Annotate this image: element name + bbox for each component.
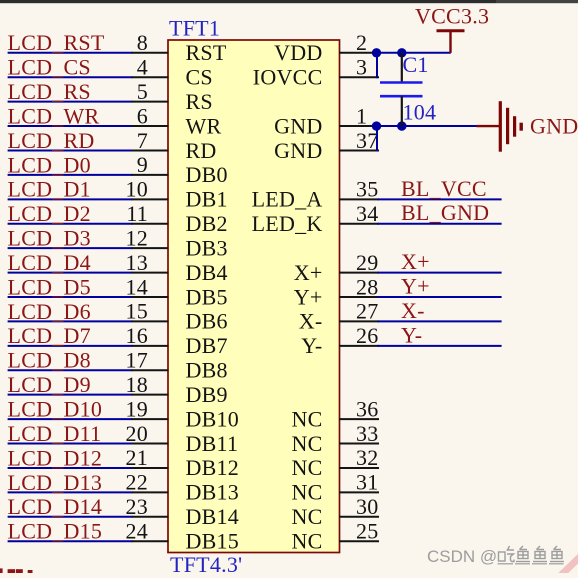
wire LCD_D9 bbox=[8, 394, 133, 396]
svg-text:VDD: VDD bbox=[274, 40, 322, 65]
svg-text:3: 3 bbox=[356, 55, 367, 80]
wire LCD_D11 bbox=[8, 443, 133, 445]
svg-text:24: 24 bbox=[126, 519, 149, 544]
wire LCD_D5 bbox=[8, 296, 133, 298]
pin 34 LED_K bbox=[252, 201, 379, 236]
svg-text:17: 17 bbox=[126, 348, 149, 373]
pin 14 DB5 bbox=[126, 274, 228, 309]
wire LCD_D1 bbox=[8, 198, 133, 200]
svg-text:8: 8 bbox=[137, 30, 148, 55]
svg-text:DB5: DB5 bbox=[186, 284, 228, 309]
pin 5 RS bbox=[132, 79, 213, 114]
wire LCD_RS bbox=[8, 101, 133, 103]
svg-text:LCD_D5: LCD_D5 bbox=[8, 274, 91, 299]
pin 29 X+ bbox=[294, 250, 379, 285]
pin 8 RST bbox=[132, 30, 227, 65]
svg-text:29: 29 bbox=[356, 250, 379, 275]
svg-text:6: 6 bbox=[137, 103, 148, 128]
pin 6 WR bbox=[132, 103, 222, 138]
wire LCD_D13 bbox=[8, 491, 133, 493]
svg-text:X-: X- bbox=[401, 298, 425, 323]
svg-text:NC: NC bbox=[291, 406, 322, 431]
pin 32 NC bbox=[291, 445, 379, 480]
svg-text:DB11: DB11 bbox=[186, 431, 239, 456]
svg-text:NC: NC bbox=[291, 504, 322, 529]
wire VDD pin2 to VCC3.3 bbox=[372, 52, 451, 54]
svg-text:22: 22 bbox=[126, 470, 149, 495]
svg-text:31: 31 bbox=[356, 470, 379, 495]
wire BL_GND bbox=[378, 223, 502, 225]
svg-text:LCD_D1: LCD_D1 bbox=[8, 177, 91, 202]
wire GND pin1 to GND symbol bbox=[372, 125, 478, 127]
pin 28 Y+ bbox=[294, 274, 379, 309]
svg-text:LCD_D12: LCD_D12 bbox=[8, 445, 103, 470]
pin 17 DB8 bbox=[126, 348, 228, 383]
svg-text:LCD_WR: LCD_WR bbox=[8, 104, 100, 129]
svg-text:LCD_D14: LCD_D14 bbox=[8, 494, 103, 519]
junction GND/C1 node bbox=[397, 121, 406, 130]
svg-text:DB10: DB10 bbox=[186, 406, 240, 431]
svg-text:RD: RD bbox=[186, 138, 217, 163]
svg-text:37: 37 bbox=[356, 128, 379, 153]
svg-text:DB15: DB15 bbox=[186, 529, 240, 554]
svg-text:X-: X- bbox=[299, 309, 323, 334]
pin 31 NC bbox=[291, 470, 379, 505]
wire LCD_RD bbox=[8, 149, 133, 151]
svg-text:NC: NC bbox=[291, 455, 322, 480]
svg-text:30: 30 bbox=[356, 494, 379, 519]
svg-text:WR: WR bbox=[186, 113, 222, 138]
svg-text:10: 10 bbox=[126, 177, 149, 202]
pin 13 DB4 bbox=[126, 250, 228, 285]
svg-text:26: 26 bbox=[356, 323, 379, 348]
svg-text:LCD_D11: LCD_D11 bbox=[8, 421, 102, 446]
component U1 body TFT1 bbox=[168, 40, 340, 553]
svg-text:LCD_D10: LCD_D10 bbox=[8, 397, 103, 422]
svg-text:34: 34 bbox=[356, 201, 379, 226]
svg-text:DB7: DB7 bbox=[186, 333, 228, 358]
svg-text:BL_GND: BL_GND bbox=[401, 200, 489, 225]
svg-text:25: 25 bbox=[356, 519, 379, 544]
pin 23 DB14 bbox=[126, 494, 240, 529]
power port VCC3.3 bar symbol bbox=[437, 31, 465, 53]
svg-text:LCD_RD: LCD_RD bbox=[8, 128, 95, 153]
wire LCD_D4 bbox=[8, 272, 133, 274]
capacitor C1 top lead bbox=[401, 53, 403, 83]
svg-text:DB13: DB13 bbox=[186, 480, 240, 505]
wire LCD_D3 bbox=[8, 247, 133, 249]
wire LCD_D8 bbox=[8, 369, 133, 371]
pin 36 NC bbox=[291, 396, 379, 431]
wire LCD_D0 bbox=[8, 174, 133, 176]
svg-text:LED_A: LED_A bbox=[252, 187, 323, 212]
pin 37 GND bbox=[274, 128, 379, 163]
pin 19 DB10 bbox=[126, 396, 240, 431]
svg-text:21: 21 bbox=[126, 445, 149, 470]
svg-text:LCD_RS: LCD_RS bbox=[8, 79, 91, 104]
svg-text:LCD_D13: LCD_D13 bbox=[8, 470, 103, 495]
svg-text:15: 15 bbox=[126, 299, 149, 324]
wire X+ bbox=[378, 272, 502, 274]
svg-text:LCD_D7: LCD_D7 bbox=[8, 323, 91, 348]
svg-text:BL_VCC: BL_VCC bbox=[401, 176, 487, 201]
svg-text:TFT4.3': TFT4.3' bbox=[170, 552, 242, 573]
svg-text:CS: CS bbox=[186, 65, 213, 90]
wire LCD_D6 bbox=[8, 320, 133, 322]
svg-text:27: 27 bbox=[356, 299, 379, 324]
svg-text:DB1: DB1 bbox=[186, 187, 228, 212]
wire X- bbox=[378, 320, 502, 322]
wire LCD_RST bbox=[8, 52, 133, 54]
svg-text:DB6: DB6 bbox=[186, 309, 228, 334]
pin 9 DB0 bbox=[132, 152, 228, 187]
svg-text:LCD_D2: LCD_D2 bbox=[8, 201, 91, 226]
svg-text:GND: GND bbox=[274, 113, 322, 138]
svg-text:33: 33 bbox=[356, 421, 379, 446]
junction pin1/pin37 node bbox=[372, 121, 381, 130]
pin 21 DB12 bbox=[126, 445, 240, 480]
svg-text:LCD_RST: LCD_RST bbox=[8, 30, 105, 55]
svg-text:4: 4 bbox=[137, 55, 148, 80]
svg-text:19: 19 bbox=[126, 396, 149, 421]
pin 33 NC bbox=[291, 421, 379, 456]
pin 16 DB7 bbox=[126, 323, 228, 358]
svg-text:DB12: DB12 bbox=[186, 455, 240, 480]
svg-text:Y+: Y+ bbox=[401, 274, 430, 299]
svg-text:LCD_D0: LCD_D0 bbox=[8, 152, 91, 177]
svg-text:GND: GND bbox=[530, 113, 578, 138]
svg-text:12: 12 bbox=[126, 226, 149, 251]
svg-text:14: 14 bbox=[126, 274, 149, 299]
svg-text:DB4: DB4 bbox=[186, 260, 228, 285]
wire LCD_D12 bbox=[8, 467, 133, 469]
svg-text:18: 18 bbox=[126, 372, 149, 397]
svg-text:DB0: DB0 bbox=[186, 162, 228, 187]
wire Y- bbox=[378, 345, 502, 347]
svg-text:NC: NC bbox=[291, 431, 322, 456]
svg-text:DB3: DB3 bbox=[186, 236, 228, 261]
svg-text:DB2: DB2 bbox=[186, 211, 228, 236]
wire LCD_D15 bbox=[8, 540, 133, 542]
pin 26 Y- bbox=[301, 323, 379, 358]
svg-text:28: 28 bbox=[356, 274, 379, 299]
svg-text:RST: RST bbox=[186, 40, 227, 65]
svg-text:13: 13 bbox=[126, 250, 149, 275]
svg-text:2: 2 bbox=[356, 30, 367, 55]
junction VDD/C1 node bbox=[397, 48, 406, 57]
svg-text:5: 5 bbox=[137, 79, 148, 104]
pin 35 LED_A bbox=[252, 177, 379, 212]
svg-text:35: 35 bbox=[356, 177, 379, 202]
wire LCD_D10 bbox=[8, 418, 133, 420]
wire IOVCC pin3 riser bbox=[376, 53, 378, 78]
svg-text:Y-: Y- bbox=[301, 333, 322, 358]
net label LCD (clipped at bottom edge) bbox=[0, 568, 33, 573]
svg-text:TFT1: TFT1 bbox=[169, 16, 220, 41]
svg-text:VCC3.3: VCC3.3 bbox=[415, 3, 489, 28]
wire BL_VCC bbox=[378, 198, 502, 200]
pin 25 NC bbox=[291, 519, 379, 554]
pin 3 IOVCC bbox=[253, 55, 379, 90]
svg-text:DB14: DB14 bbox=[186, 504, 240, 529]
svg-text:36: 36 bbox=[356, 396, 379, 421]
svg-text:DB9: DB9 bbox=[186, 382, 228, 407]
wire LCD_D7 bbox=[8, 345, 133, 347]
svg-text:LCD_D15: LCD_D15 bbox=[8, 519, 103, 544]
svg-text:Y+: Y+ bbox=[294, 284, 323, 309]
watermark (decorative) bbox=[427, 547, 497, 566]
pin 10 DB1 bbox=[126, 177, 228, 212]
svg-text:LCD_D9: LCD_D9 bbox=[8, 372, 91, 397]
pin 22 DB13 bbox=[126, 470, 240, 505]
svg-text:C1: C1 bbox=[403, 52, 429, 77]
pin 27 X- bbox=[299, 299, 379, 334]
pin 20 DB11 bbox=[126, 421, 239, 456]
pin 15 DB6 bbox=[126, 299, 228, 334]
svg-text:LCD_D3: LCD_D3 bbox=[8, 226, 91, 251]
svg-text:Y-: Y- bbox=[401, 322, 422, 347]
pin 30 NC bbox=[291, 494, 379, 529]
wire LCD_D14 bbox=[8, 516, 133, 518]
capacitor C1 plates bbox=[380, 83, 423, 97]
svg-text:NC: NC bbox=[291, 529, 322, 554]
junction pin2/pin3 node bbox=[372, 48, 381, 57]
svg-text:DB8: DB8 bbox=[186, 358, 228, 383]
wire GND pin37 riser bbox=[376, 126, 378, 151]
wire LCD_CS bbox=[8, 76, 133, 78]
svg-text:GND: GND bbox=[274, 138, 322, 163]
pin 12 DB3 bbox=[126, 226, 228, 261]
svg-text:NC: NC bbox=[291, 480, 322, 505]
svg-text:LCD_D6: LCD_D6 bbox=[8, 299, 91, 324]
pin 7 RD bbox=[132, 128, 217, 163]
svg-text:LCD_D8: LCD_D8 bbox=[8, 348, 91, 373]
svg-text:LCD_D4: LCD_D4 bbox=[8, 250, 91, 275]
svg-text:RS: RS bbox=[186, 89, 213, 114]
svg-text:32: 32 bbox=[356, 445, 379, 470]
svg-text:7: 7 bbox=[137, 128, 148, 153]
pin 2 VDD bbox=[274, 30, 379, 65]
ground symbol GND bbox=[477, 101, 522, 152]
wire LCD_WR bbox=[8, 125, 133, 127]
svg-text:X+: X+ bbox=[294, 260, 323, 285]
svg-text:20: 20 bbox=[126, 421, 149, 446]
svg-text:9: 9 bbox=[137, 152, 148, 177]
svg-text:LED_K: LED_K bbox=[252, 211, 323, 236]
wire LCD_D2 bbox=[8, 223, 133, 225]
pin 11 DB2 bbox=[126, 201, 228, 236]
svg-text:16: 16 bbox=[126, 323, 149, 348]
svg-text:IOVCC: IOVCC bbox=[253, 65, 323, 90]
pin 18 DB9 bbox=[126, 372, 228, 407]
svg-text:LCD_CS: LCD_CS bbox=[8, 55, 91, 80]
svg-text:1: 1 bbox=[356, 103, 367, 128]
svg-text:X+: X+ bbox=[401, 249, 430, 274]
capacitor C1 bottom lead bbox=[401, 96, 403, 126]
wire Y+ bbox=[378, 296, 502, 298]
svg-text:CSDN @: CSDN @ bbox=[427, 547, 497, 566]
svg-text:11: 11 bbox=[126, 201, 148, 226]
svg-text:23: 23 bbox=[126, 494, 149, 519]
pin 1 GND bbox=[274, 103, 379, 138]
pin 24 DB15 bbox=[126, 519, 240, 554]
pin 4 CS bbox=[132, 55, 213, 90]
svg-text:104: 104 bbox=[403, 99, 437, 124]
